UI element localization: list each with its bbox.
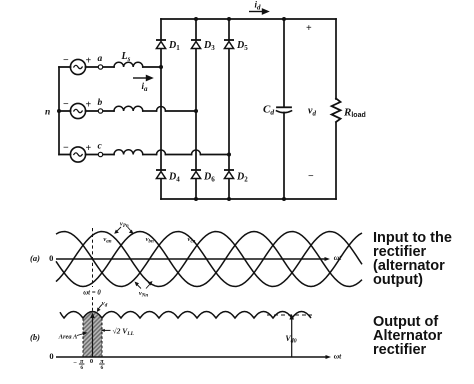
svg-text:−: − xyxy=(73,360,77,367)
svg-text:(a): (a) xyxy=(30,253,40,263)
svg-text:+: + xyxy=(86,143,92,154)
svg-text:rectifier: rectifier xyxy=(373,342,427,358)
svg-text:6: 6 xyxy=(101,365,104,371)
svg-text:−: − xyxy=(63,143,69,154)
svg-text:output): output) xyxy=(373,272,423,288)
svg-text:0: 0 xyxy=(49,351,53,361)
svg-text:n: n xyxy=(45,108,50,118)
svg-text:ωt: ωt xyxy=(334,253,342,262)
svg-text:−: − xyxy=(63,99,69,110)
svg-text:b: b xyxy=(98,98,103,108)
svg-text:−: − xyxy=(63,55,69,66)
svg-text:0: 0 xyxy=(90,358,93,365)
svg-text:+: + xyxy=(306,23,312,34)
svg-text:ωt: ωt xyxy=(334,352,342,361)
svg-text:+: + xyxy=(86,100,92,111)
svg-text:−: − xyxy=(308,171,314,182)
svg-text:6: 6 xyxy=(80,365,83,371)
svg-text:+: + xyxy=(86,56,92,67)
svg-text:(b): (b) xyxy=(30,332,40,342)
svg-text:ωt = 0: ωt = 0 xyxy=(83,290,101,297)
svg-text:a: a xyxy=(98,54,103,64)
svg-text:0: 0 xyxy=(49,253,53,263)
svg-text:Area A: Area A xyxy=(58,334,78,341)
